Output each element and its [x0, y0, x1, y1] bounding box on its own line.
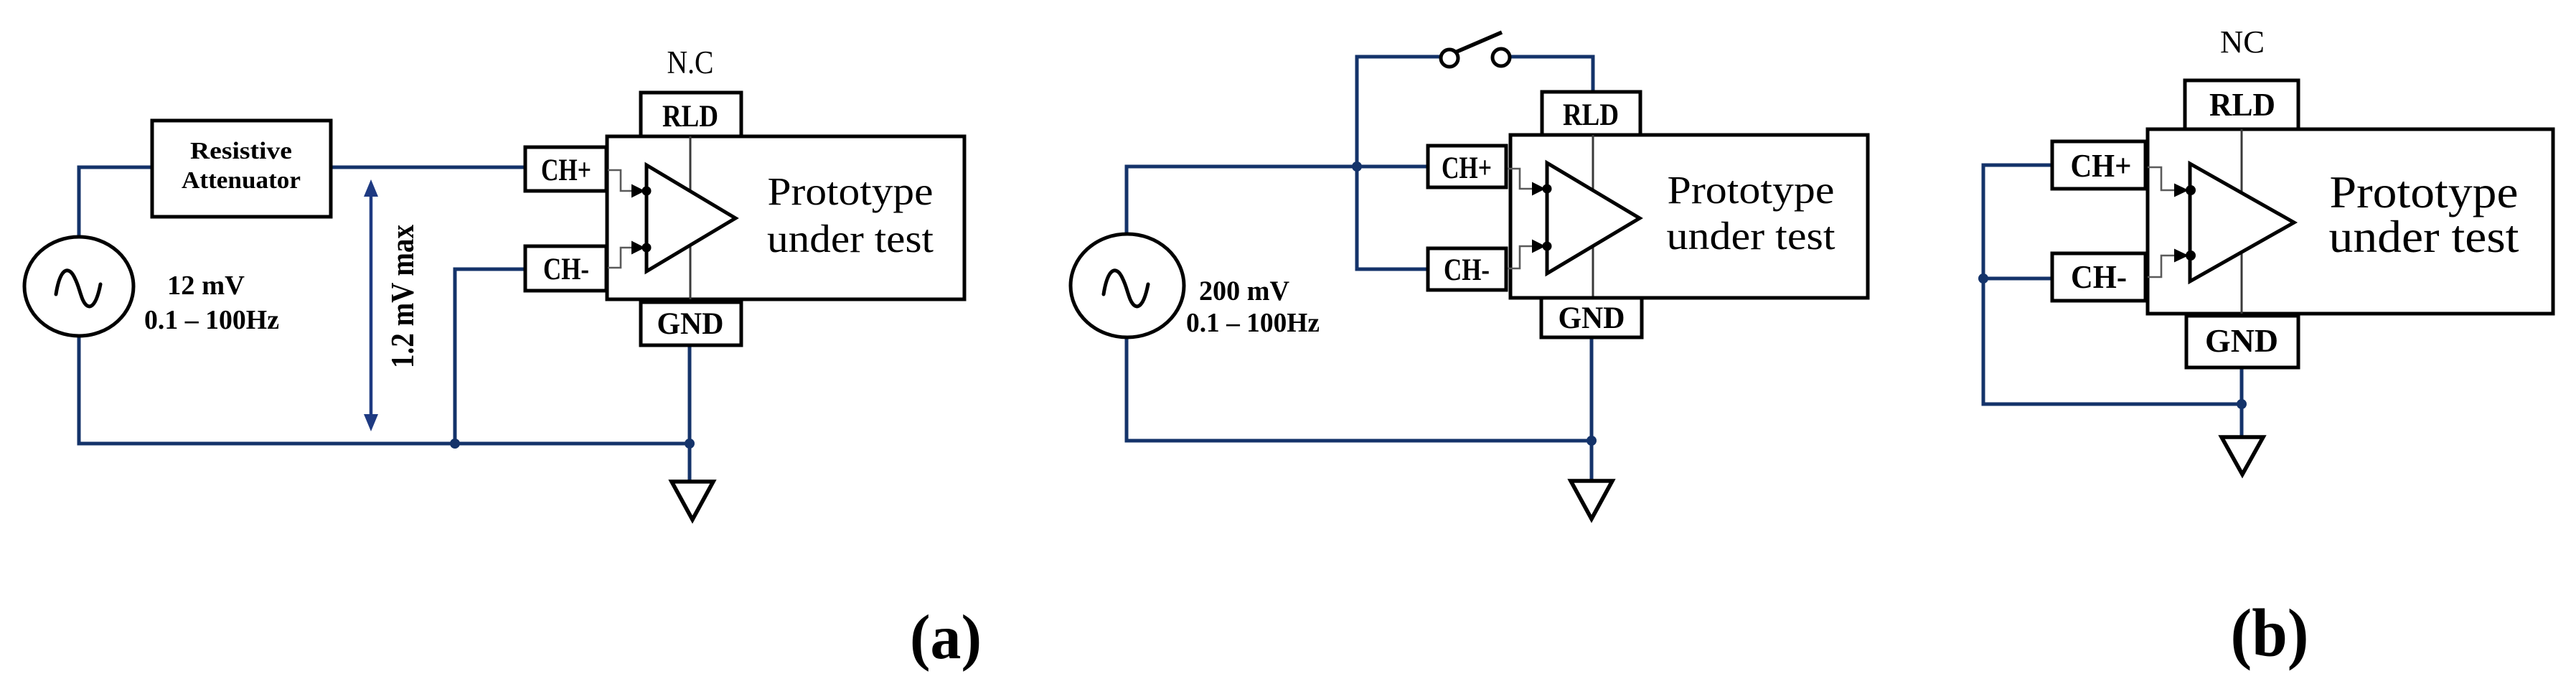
svg-text:under test: under test — [767, 217, 934, 261]
svg-text:CH-: CH- — [2071, 258, 2127, 295]
pin box CH- (b) — [2052, 253, 2145, 301]
svg-text:1.2 mV max: 1.2 mV max — [384, 225, 420, 368]
RLD box (a) — [641, 93, 741, 137]
label 0.1 - 100Hz (mid) — [1186, 308, 1320, 338]
svg-text:under test: under test — [2329, 212, 2520, 262]
pin box CH+ (b) — [2052, 141, 2145, 189]
wire attenuator to CH+ — [331, 166, 527, 169]
svg-text:12 mV: 12 mV — [167, 271, 245, 301]
wire CH- drop (mid) — [1357, 167, 1426, 269]
ground symbol (mid) — [1571, 481, 1612, 519]
op-amp U1 (a) — [647, 165, 735, 271]
wire GND to ground (b) — [2240, 367, 2244, 438]
source V1 (a) — [24, 237, 133, 336]
svg-text:GND: GND — [2205, 322, 2278, 359]
caption (a) — [910, 603, 982, 673]
internal bus line (a) — [690, 136, 692, 299]
prototype box (mid) — [1510, 135, 1868, 298]
svg-text:CH+: CH+ — [541, 154, 591, 187]
ground symbol (a) — [672, 482, 713, 520]
input stub CH+ (a) — [608, 170, 652, 198]
label 0.1 - 100Hz — [144, 305, 279, 335]
svg-text:GND: GND — [1559, 301, 1625, 335]
svg-text:GND: GND — [657, 307, 724, 341]
op-amp U2 (mid) — [1547, 163, 1640, 273]
wire GND to rail (mid) — [1590, 337, 1594, 482]
internal bus line (mid) — [1592, 135, 1594, 298]
svg-text:NC: NC — [2220, 24, 2265, 60]
GND box (b) — [2186, 316, 2298, 367]
wire CH+ loop left (b) — [1983, 165, 2242, 404]
op-amp U3 (b) — [2190, 164, 2294, 281]
internal bus line (b) — [2241, 129, 2243, 314]
junction ground rail (mid) — [1587, 436, 1597, 446]
pin box CH- (mid) — [1428, 248, 1506, 290]
svg-text:Prototype: Prototype — [2330, 167, 2519, 217]
svg-text:CH+: CH+ — [2071, 147, 2132, 184]
label prototype under test (mid) — [1667, 168, 1835, 258]
svg-text:200 mV: 200 mV — [1199, 276, 1289, 306]
switch S1 (mid) — [1441, 32, 1510, 67]
svg-text:CH+: CH+ — [1442, 151, 1492, 185]
wire junction up to switch (mid) — [1357, 57, 1442, 167]
pin box CH+ (a) — [525, 147, 606, 191]
svg-text:N.C: N.C — [667, 44, 714, 80]
input stub CH- (b) — [2148, 249, 2196, 278]
label N.C — [667, 44, 714, 80]
ground symbol (b) — [2222, 437, 2263, 474]
pin box CH+ (mid) — [1428, 146, 1506, 187]
input stub CH+ (b) — [2148, 167, 2196, 197]
caption (b) — [2231, 595, 2309, 671]
svg-text:RLD: RLD — [1563, 98, 1619, 132]
junction ground rail (b) — [2237, 399, 2247, 409]
svg-text:RLD: RLD — [2209, 86, 2275, 123]
junction ground rail — [685, 439, 695, 449]
prototype box (a) — [607, 136, 964, 299]
input stub CH- (mid) — [1508, 240, 1552, 269]
svg-text:(b): (b) — [2231, 595, 2309, 671]
wire GND to rail — [688, 345, 692, 482]
label NC (b) — [2220, 24, 2265, 60]
svg-text:CH-: CH- — [543, 253, 589, 286]
svg-text:RLD: RLD — [662, 100, 718, 133]
RLD box (b) — [2185, 80, 2298, 129]
resistive attenuator box — [152, 121, 331, 217]
pin box CH- (a) — [525, 246, 606, 291]
label prototype under test (b) — [2329, 167, 2520, 262]
dimension arrow 1.2 mV max — [364, 179, 378, 431]
RLD box (mid) — [1542, 92, 1640, 135]
wire switch to RLD (mid) — [1510, 57, 1593, 92]
wire CH- stub (b) — [1983, 277, 2051, 281]
svg-text:under test: under test — [1667, 214, 1835, 258]
GND box (mid) — [1541, 298, 1642, 337]
svg-text:0.1 – 100Hz: 0.1 – 100Hz — [1186, 308, 1320, 338]
wire source bottom to ground rail (mid) — [1127, 337, 1592, 441]
svg-text:Prototype: Prototype — [768, 169, 934, 213]
label 200 mV — [1199, 276, 1289, 306]
source V2 (mid) — [1071, 234, 1184, 337]
svg-text:0.1 – 100Hz: 0.1 – 100Hz — [144, 305, 279, 335]
label prototype under test (a) — [767, 169, 934, 261]
input stub CH- (a) — [608, 241, 652, 268]
svg-text:CH-: CH- — [1444, 253, 1490, 287]
wire source top to attenuator — [79, 167, 153, 237]
input stub CH+ (mid) — [1508, 169, 1552, 196]
wire source top to CH+ (mid) — [1127, 167, 1426, 235]
junction input node (mid) — [1352, 161, 1362, 172]
svg-text:Prototype: Prototype — [1668, 168, 1835, 212]
wire CH- drop — [455, 269, 527, 444]
label 12 mV — [167, 271, 245, 301]
label 1.2 mV max — [384, 225, 420, 368]
wire source bottom to ground rail — [79, 334, 690, 444]
GND box (a) — [641, 302, 741, 345]
svg-text:(a): (a) — [910, 603, 982, 673]
junction CH- (b) — [1978, 273, 1988, 284]
prototype box (b) — [2148, 129, 2553, 314]
svg-text:Resistive: Resistive — [190, 138, 292, 164]
svg-text:Attenuator: Attenuator — [182, 167, 301, 194]
junction CH- rail — [450, 439, 460, 449]
